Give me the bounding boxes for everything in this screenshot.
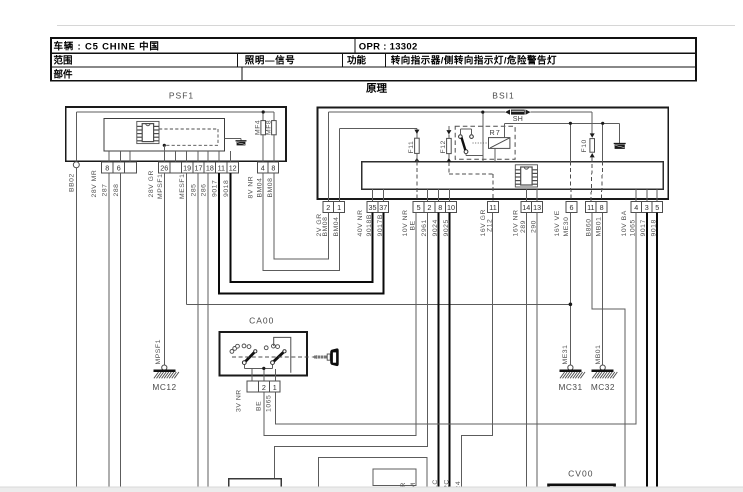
shunt SH [505, 110, 531, 124]
svg-text:MF4: MF4 [255, 120, 262, 135]
wire BM04 feed inside BSI1 [339, 129, 417, 202]
svg-text:290: 290 [531, 220, 538, 233]
svg-text:10V NR: 10V NR [402, 209, 409, 236]
svg-text:MF8: MF8 [265, 120, 272, 135]
wire BB02 [75, 168, 77, 487]
wire 287 [108, 173, 110, 487]
svg-text:2: 2 [326, 203, 330, 212]
PSF1 pin 8b [268, 162, 279, 173]
svg-text:28V MR: 28V MR [91, 170, 98, 198]
svg-text:2: 2 [262, 383, 266, 392]
BSI1 pin 13 [532, 202, 543, 213]
svg-text:8V NR: 8V NR [248, 176, 255, 199]
IC U2 in BSI1 [515, 165, 537, 187]
internal dashed wires rail to pins 6 and 8 [569, 162, 572, 202]
wire 9017 PSF1 to BSI1 pin37 [219, 173, 384, 293]
svg-text:8: 8 [271, 164, 275, 173]
svg-text:MPSF1: MPSF1 [157, 174, 164, 199]
wire 9017 right [646, 213, 648, 488]
wire MPSF1 to MC12 [163, 173, 165, 365]
wire 289 [525, 213, 527, 488]
svg-text:35: 35 [369, 203, 377, 212]
page top rule [57, 25, 735, 27]
wire 2961 BSI1 pin2b to bottom connector [274, 213, 427, 479]
BSI1 pin 3 [642, 202, 653, 213]
svg-text:6: 6 [570, 203, 574, 212]
svg-text:BE: BE [410, 220, 417, 230]
svg-text:BM04: BM04 [333, 217, 340, 237]
CA00 wire labels [235, 389, 272, 412]
svg-text:13: 13 [533, 203, 541, 212]
IC U1 in PSF1 [137, 121, 159, 143]
CA00 pin 1 [269, 381, 280, 392]
CA00 pin 2 [259, 381, 270, 392]
BSI1 pin 2 [323, 202, 334, 213]
svg-text:2: 2 [427, 203, 431, 212]
wire 285 [197, 173, 199, 487]
svg-text:288: 288 [113, 184, 120, 197]
BSI1 pin 11b [585, 202, 596, 213]
PSF1 internal supply wire from BB02 [76, 112, 274, 161]
wire MB01 to MC32 [602, 213, 604, 366]
relay R7 contact [459, 129, 488, 156]
BSI1 pin 5 [413, 202, 424, 213]
wire BM08 feed inside BSI1 [328, 112, 592, 201]
ground MC32 [591, 345, 617, 392]
svg-text:3: 3 [645, 203, 649, 212]
svg-text:11: 11 [218, 164, 225, 173]
svg-text:285: 285 [190, 184, 197, 197]
fuse F10 [581, 133, 595, 157]
BSI1 ground rail [505, 123, 620, 161]
PSF1 pin 19 [181, 162, 192, 173]
node rail tap MB01 [601, 122, 604, 125]
wire 9018 PSF1 to BSI1 pin35 [230, 173, 372, 282]
svg-text:部件: 部件 [54, 69, 74, 81]
svg-text:F11: F11 [408, 141, 415, 154]
svg-text:SH: SH [513, 114, 523, 123]
BSI1 pin 35 [367, 202, 378, 213]
svg-text:5: 5 [655, 203, 659, 212]
wire pin26 internal [163, 145, 165, 162]
wire 286 [207, 173, 209, 487]
bottom cut wire labels [400, 479, 462, 489]
PSF1 module stubs to pins [109, 151, 230, 162]
svg-text:8: 8 [438, 203, 442, 212]
svg-text:3V NR: 3V NR [235, 389, 242, 412]
node MESF1-ME30 junction [569, 303, 573, 307]
connector box bottom-left [229, 479, 282, 492]
fuse MF8 [265, 120, 276, 162]
PSF1 pin 6 [113, 162, 124, 173]
svg-text:2961: 2961 [421, 219, 428, 236]
svg-text:9018: 9018 [223, 180, 230, 197]
svg-text:5: 5 [417, 203, 421, 212]
svg-text:1: 1 [337, 203, 341, 212]
PSF1 pin 26 [159, 162, 170, 173]
svg-text:BM08: BM08 [322, 217, 329, 237]
PSF1 pin 12 [227, 162, 238, 173]
PSF1 pin 4 [258, 162, 269, 173]
CA00 right contact set [264, 344, 286, 364]
wire 9024 [438, 213, 440, 488]
svg-text:BSI1: BSI1 [492, 91, 514, 101]
bottom crop band [0, 487, 743, 492]
svg-text:8: 8 [600, 203, 604, 212]
svg-text:6: 6 [117, 164, 121, 173]
svg-text:289: 289 [520, 220, 527, 233]
node SH junction [481, 111, 484, 114]
BSI1 pin 11 [488, 202, 499, 213]
fuse MF4 [255, 120, 266, 162]
svg-text:17: 17 [195, 164, 203, 173]
svg-text:12: 12 [229, 164, 237, 173]
svg-text:26: 26 [160, 164, 168, 173]
node rail tap ME30 [569, 122, 572, 125]
svg-text:1065: 1065 [630, 219, 637, 236]
svg-text:9017: 9017 [212, 180, 219, 197]
svg-text:MPSF1: MPSF1 [155, 339, 162, 364]
svg-text:R7: R7 [490, 128, 501, 137]
relay R7 dashed enclosure [455, 126, 515, 159]
svg-text:MC32: MC32 [591, 382, 615, 392]
wire 288 [120, 173, 122, 487]
PSF1 spare pin [124, 162, 136, 173]
svg-text:4: 4 [634, 203, 638, 212]
node MF4 tap [262, 110, 265, 113]
BSI1 pin 1 [334, 202, 345, 213]
svg-text:MC31: MC31 [559, 382, 583, 392]
svg-text:16V NR: 16V NR [513, 209, 520, 236]
title block table [51, 38, 696, 81]
svg-text:1065: 1065 [266, 395, 273, 412]
internal dashed wire F11 to pin 5 BE [416, 162, 418, 202]
svg-text:范围: 范围 [54, 55, 73, 67]
PSF1 wire labels [68, 170, 274, 199]
svg-text:14: 14 [522, 203, 530, 212]
CA00 pin row [247, 381, 259, 392]
CA00 key dashed line [232, 356, 311, 358]
svg-text:BB02: BB02 [68, 173, 75, 192]
PSF1 internal ground [225, 139, 247, 146]
svg-text:PSF1: PSF1 [169, 91, 194, 101]
BSI1 wire labels [316, 209, 658, 236]
svg-text:40V NR: 40V NR [357, 209, 364, 236]
svg-text:功能: 功能 [347, 55, 367, 67]
internal dashed wire F12 to pin 11 [449, 162, 493, 202]
node CA00 pin2 junction [262, 367, 265, 370]
svg-text:MESF1: MESF1 [179, 174, 186, 199]
svg-text:11: 11 [489, 203, 496, 212]
BSI1 pin 14 [521, 202, 532, 213]
BSI1 pin 2b [424, 202, 435, 213]
PSF1 internal dashed link to pin 26 [159, 129, 218, 145]
svg-text:287: 287 [101, 184, 108, 197]
ground MC31 [559, 345, 585, 392]
internal dashed wire F10 to pin 11b [591, 157, 592, 201]
svg-text:照明—信号: 照明—信号 [245, 55, 296, 67]
BSI1 pin 10 [446, 202, 457, 213]
key symbol [311, 348, 338, 366]
BSI1 pin 37 [378, 202, 389, 213]
CA00 internal bottom wiring [244, 365, 275, 382]
wire 1065 BSI1 pin4 to CA00 pin1 [276, 213, 637, 424]
CA00 inner sub box [274, 337, 291, 372]
svg-text:转向指示器/侧转向指示灯/危险警告灯: 转向指示器/侧转向指示灯/危险警告灯 [391, 55, 557, 67]
ground MC12 [152, 339, 178, 392]
wire BM08 PSF1 to BSI1 pin2 [274, 173, 329, 259]
wire BE BSI1 pin5 to CA00 pin2 [264, 213, 416, 436]
PSF1 pin 17 [193, 162, 204, 173]
svg-text:OPR : 13302: OPR : 13302 [359, 42, 418, 53]
svg-text:CV00: CV00 [568, 469, 593, 479]
svg-text:16V VE: 16V VE [554, 210, 561, 236]
svg-text:4: 4 [261, 164, 265, 173]
svg-text:19: 19 [183, 164, 191, 173]
svg-text:BM08: BM08 [267, 178, 274, 198]
PSF1 pin 8 [102, 162, 113, 173]
svg-text:车辆 : C5 CHINE 中国: 车辆 : C5 CHINE 中国 [54, 41, 160, 53]
svg-text:MB01: MB01 [595, 345, 602, 365]
svg-text:37: 37 [379, 203, 387, 212]
relay R7 coil [489, 123, 510, 161]
BSI1 module stubs to pins [373, 189, 658, 202]
wire BM04 PSF1 to BSI1 pin1 [263, 173, 339, 271]
wire B860 [592, 213, 625, 488]
PSF1 pin 11 [216, 162, 227, 173]
svg-text:F12: F12 [440, 140, 447, 153]
svg-text:10: 10 [447, 203, 455, 212]
fuse F12 [440, 126, 451, 162]
svg-text:18: 18 [206, 164, 214, 173]
wire 9025 [449, 213, 451, 488]
BSI1 internal ground symbol [614, 144, 626, 149]
svg-text:8: 8 [105, 164, 109, 173]
PSF1 inner module box [104, 119, 225, 152]
BSI1 pin 6 [566, 202, 577, 213]
wire MESF1 [187, 173, 571, 304]
svg-text:ME30: ME30 [563, 217, 570, 237]
PSF1 spare pin [170, 162, 181, 173]
BSI1 pin 8 [435, 202, 446, 213]
svg-text:11: 11 [587, 203, 594, 212]
svg-text:286: 286 [201, 184, 208, 197]
svg-text:B860: B860 [586, 218, 593, 236]
node junction on pin26 line [163, 144, 166, 147]
svg-text:BE: BE [255, 401, 262, 411]
wire SH junction to relay common [482, 112, 484, 161]
svg-text:10V BA: 10V BA [621, 210, 628, 236]
wire link bottom bridge [318, 457, 427, 487]
BSI1 pin 8b [596, 202, 607, 213]
component PSF1 box [66, 107, 286, 161]
wire Z12 [462, 213, 493, 488]
wire 290 [536, 213, 538, 488]
component CA00 box [220, 332, 308, 376]
BSI1 pin 5b [652, 202, 663, 213]
svg-text:1: 1 [273, 383, 277, 392]
connector box bottom-middle [373, 469, 416, 486]
terminal BB02 [73, 162, 79, 168]
svg-text:ME31: ME31 [562, 345, 569, 365]
svg-text:BM04: BM04 [257, 178, 264, 198]
svg-text:MB01: MB01 [596, 217, 603, 237]
BSI1 inner module box [362, 162, 664, 190]
PSF1 pin 18 [204, 162, 215, 173]
component BSI1 box [318, 107, 669, 199]
BSI1 pin 4 [631, 202, 642, 213]
fuse F11 [408, 130, 419, 162]
component CV00 box top [549, 485, 615, 492]
svg-text:原理: 原理 [366, 83, 387, 95]
wire 9018 right [656, 213, 658, 488]
svg-text:CA00: CA00 [249, 316, 274, 326]
svg-text:F10: F10 [581, 139, 588, 152]
wire ME30 to MC31 [569, 213, 571, 366]
svg-text:28V GR: 28V GR [148, 170, 155, 197]
CA00 left contact set [230, 344, 257, 365]
svg-text:MC12: MC12 [152, 382, 176, 392]
